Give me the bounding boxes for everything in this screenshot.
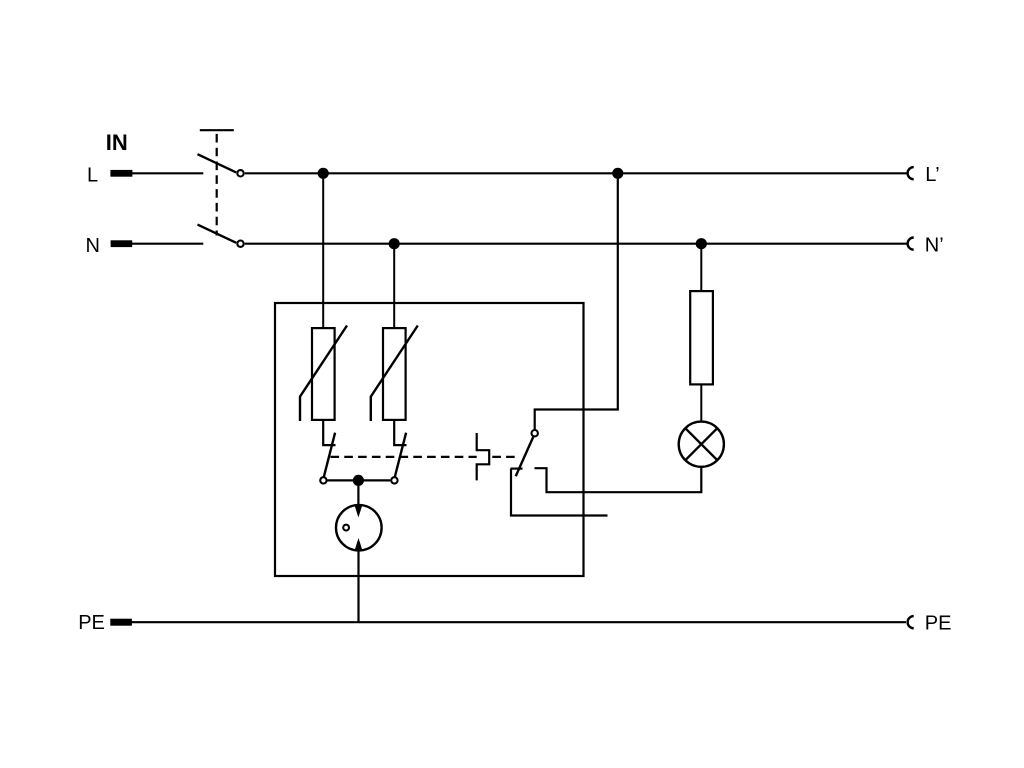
- contact K1 lead: [323, 421, 335, 445]
- svg-text:PE: PE: [925, 612, 952, 634]
- contact K2 terminal: [391, 477, 397, 483]
- terminal stub N: [111, 240, 133, 247]
- wire L feed down: [535, 173, 618, 429]
- switch S1 pole N contact: [237, 241, 243, 247]
- mechanical link dashed left: [331, 456, 477, 458]
- terminal stub L: [110, 170, 132, 177]
- svg-text:N: N: [86, 235, 100, 257]
- varistor RV2 diagonal: [371, 326, 418, 422]
- lamp H1 body: [679, 422, 724, 467]
- wire NC contact out: [511, 469, 608, 516]
- wire down arrow into socket: [357, 480, 359, 506]
- wire lamp to relay NO contact: [535, 468, 702, 493]
- wire L bus: [245, 172, 907, 174]
- wire N bus: [245, 243, 907, 245]
- wire L down to RV1: [322, 173, 324, 327]
- junction N to varistor RV2: [389, 238, 400, 249]
- junction L to varistor RV1: [318, 168, 329, 179]
- svg-text:L: L: [87, 164, 98, 186]
- wire PE bus: [131, 621, 906, 623]
- terminal L': [908, 167, 914, 179]
- switch S1 pole L contact: [237, 170, 243, 176]
- terminal stub PE: [110, 619, 132, 626]
- thermal actuator T1: [477, 433, 490, 480]
- wire PE up arrow shaft: [357, 544, 359, 622]
- terminal PE': [908, 616, 914, 628]
- varistor RV2 body: [383, 328, 406, 420]
- arrowhead up: [355, 538, 363, 550]
- junction contacts to socket: [353, 475, 364, 486]
- svg-text:IN: IN: [106, 130, 128, 155]
- relay switch K common terminal: [532, 430, 538, 436]
- varistor RV1 diagonal: [300, 326, 347, 422]
- contact K2 blade: [395, 433, 406, 477]
- resistor R1 body: [690, 291, 713, 384]
- junction L feed to relay switch: [612, 168, 623, 179]
- wire R1 to lamp: [700, 386, 702, 422]
- switch S1 link (dashed): [216, 134, 218, 236]
- switch S1 actuator bar: [200, 129, 234, 131]
- socket X1 pilot hole: [343, 525, 349, 531]
- svg-text:N’: N’: [925, 235, 944, 257]
- relay switch K blade: [516, 437, 534, 476]
- relay NC contact stub: [511, 468, 523, 470]
- terminal N': [908, 238, 914, 250]
- varistor RV1 body: [312, 328, 335, 420]
- wire N input: [132, 243, 204, 245]
- contact K1 blade: [324, 433, 335, 477]
- junction N to resistor R1: [696, 238, 707, 249]
- contact K1 terminal: [320, 477, 326, 483]
- wire N down to RV2: [393, 244, 395, 327]
- arrowhead down: [355, 506, 363, 518]
- switch S1 pole N blade: [198, 225, 237, 243]
- contact K2 lead: [394, 421, 406, 445]
- enclosure box: [275, 303, 584, 576]
- lamp H1 cross: [685, 428, 717, 460]
- switch S1 pole L blade: [198, 154, 237, 172]
- svg-text:L’: L’: [925, 164, 939, 186]
- wire L input: [132, 172, 204, 174]
- svg-text:PE: PE: [78, 612, 105, 634]
- wire joining contacts: [328, 479, 391, 481]
- socket X1 body: [336, 505, 382, 551]
- wire N feed to resistor R1: [700, 244, 702, 290]
- mechanical link dashed right: [492, 456, 520, 458]
